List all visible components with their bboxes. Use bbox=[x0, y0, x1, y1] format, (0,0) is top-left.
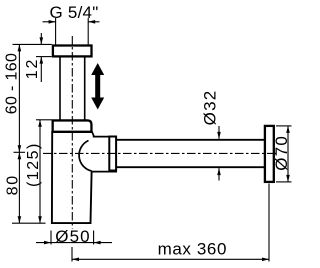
dim G5/4 right arrowhead bbox=[88, 20, 95, 24]
dim O70 bottom arrowhead bbox=[286, 175, 290, 182]
dim O32 lower arrowhead bbox=[217, 168, 221, 175]
dim O50 left arrowhead bbox=[44, 241, 51, 245]
dim O32 upper arrowhead bbox=[217, 132, 221, 139]
dim 12 line bbox=[40, 33, 42, 82]
dim O50 extension and dimension lines bbox=[36, 231, 112, 245]
svg-text:Ø70: Ø70 bbox=[272, 135, 291, 171]
union nut bbox=[109, 137, 116, 171]
dim 60-160 bottom arrowhead bbox=[18, 145, 22, 152]
top flange nut (G thread) bbox=[53, 46, 92, 57]
dim G5/4 left arrowhead bbox=[49, 20, 56, 24]
bottle cup body bbox=[52, 131, 92, 223]
dim max360 extension and dimension lines bbox=[72, 184, 269, 262]
cup bottom reference tick bbox=[12, 222, 46, 224]
dim 12 lower arrowhead bbox=[40, 57, 44, 64]
dim max360 right arrowhead bbox=[262, 258, 269, 262]
svg-text:60 - 160: 60 - 160 bbox=[3, 53, 20, 115]
svg-text:Ø50: Ø50 bbox=[55, 227, 90, 246]
svg-text:Ø32: Ø32 bbox=[200, 90, 219, 126]
flange bottom reference line bbox=[36, 56, 52, 58]
dim 80 bottom arrowhead bbox=[18, 216, 22, 223]
svg-text:(125): (125) bbox=[25, 142, 42, 187]
dim 80 top arrowhead bbox=[18, 152, 22, 159]
dim 80 line bbox=[18, 152, 20, 223]
outlet tube edges bbox=[91, 137, 117, 172]
dim (125) top arrowhead bbox=[38, 120, 42, 127]
svg-text:G 5/4": G 5/4" bbox=[49, 3, 98, 22]
adjustability double arrow bbox=[91, 63, 104, 110]
tail pipe (vertical adjustable tube) bbox=[60, 56, 85, 121]
dim (125) line bbox=[39, 120, 41, 223]
outlet dome arc bbox=[79, 141, 92, 172]
wall rosette disc bbox=[265, 126, 274, 182]
flange top reference line bbox=[13, 43, 52, 45]
dim O32 lines bbox=[218, 126, 220, 181]
dim O70 top arrowhead bbox=[286, 126, 290, 133]
cap nut top reference tick bbox=[36, 119, 52, 121]
dim 60-160 line bbox=[18, 44, 20, 152]
dim O70 extension and dimension lines bbox=[276, 126, 292, 182]
vertical centerline (trap axis) bbox=[71, 36, 73, 229]
nut-to-tube chamfer bbox=[92, 131, 94, 137]
svg-text:max 360: max 360 bbox=[158, 239, 227, 258]
horizontal outlet pipe bbox=[117, 140, 264, 167]
svg-text:80: 80 bbox=[5, 174, 22, 195]
dim O50 right arrowhead bbox=[94, 241, 101, 245]
dim G5/4 extension and dimension lines bbox=[43, 18, 100, 45]
svg-text:12: 12 bbox=[24, 58, 41, 79]
dim 60-160 top arrowhead bbox=[18, 44, 22, 51]
horizontal centerline (outlet pipe axis) bbox=[43, 152, 276, 154]
bottle cap nut bbox=[53, 120, 92, 131]
dim (125) bottom arrowhead bbox=[38, 216, 42, 223]
dim max360 left arrowhead bbox=[72, 258, 79, 262]
dim 12 upper arrowhead bbox=[40, 37, 44, 44]
pipe axis reference tick bbox=[14, 151, 26, 153]
